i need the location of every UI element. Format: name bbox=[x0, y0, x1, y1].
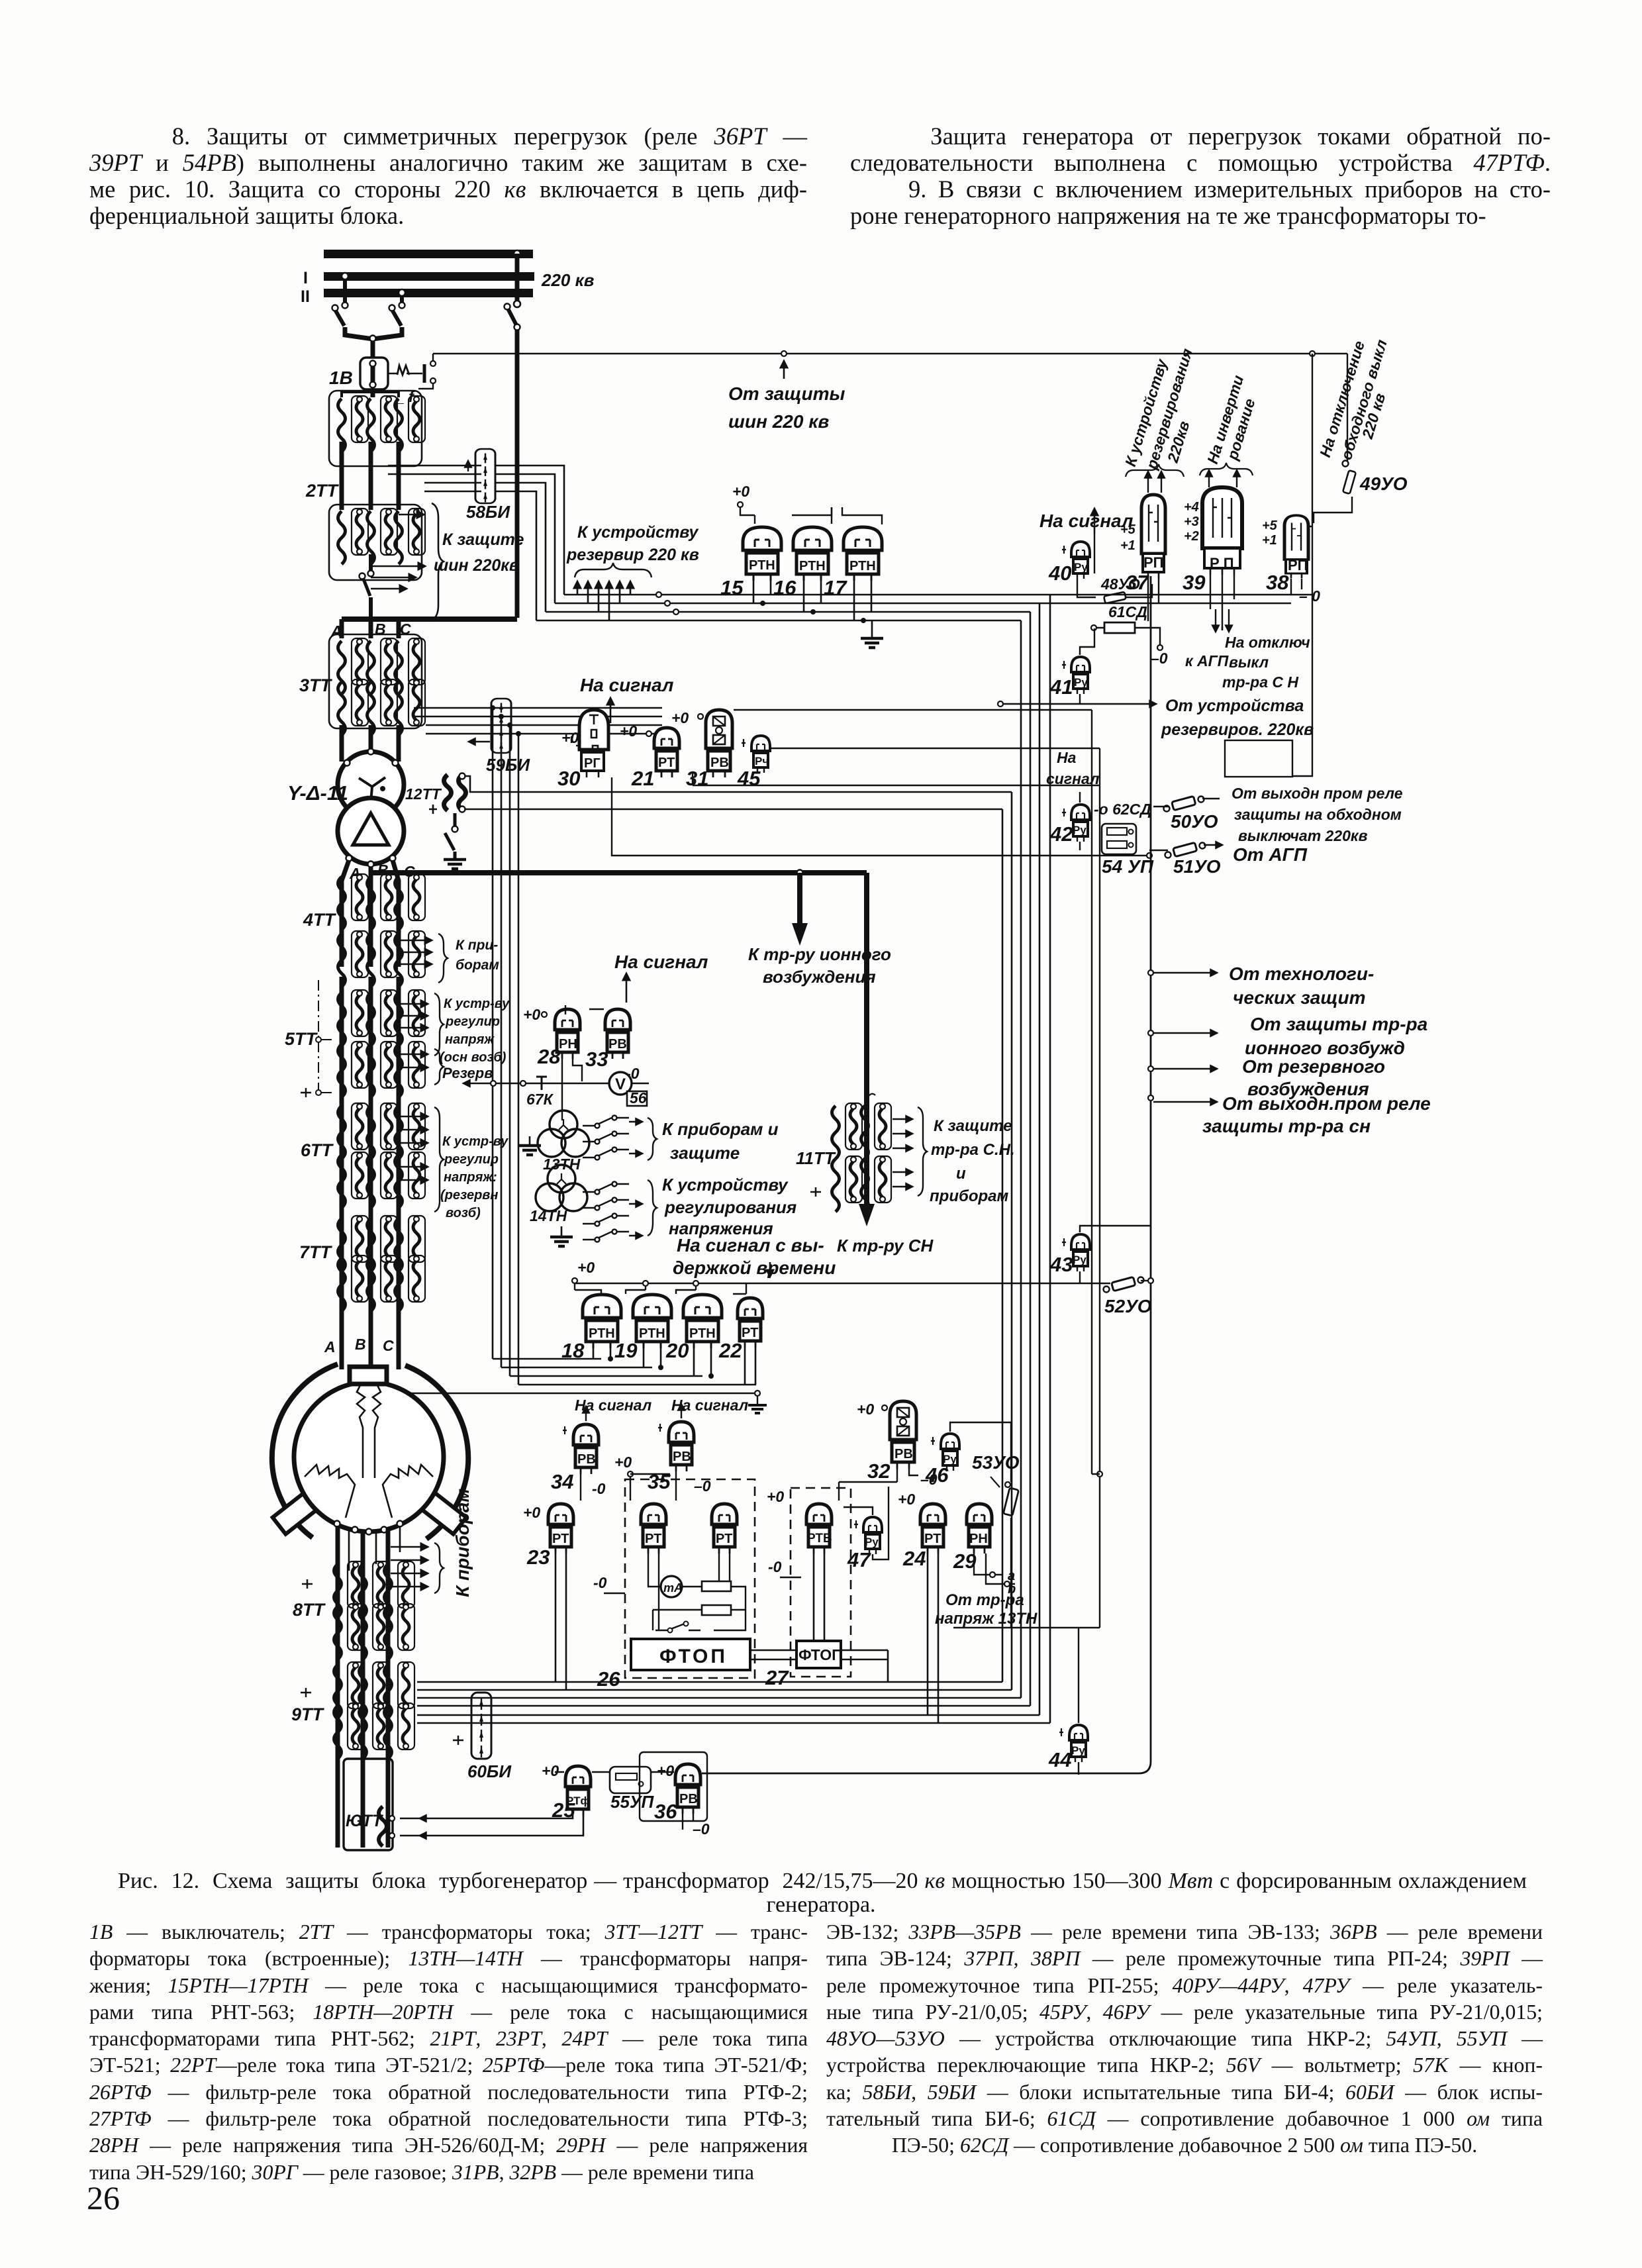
transformer D lower winding bbox=[338, 798, 404, 864]
wire: 28 leg down to 13TN bbox=[562, 1059, 582, 1120]
relay RN 29 bbox=[967, 1504, 992, 1553]
relay RV 34 bbox=[573, 1424, 599, 1474]
relay RN 28 bbox=[555, 1009, 580, 1059]
svg-text:34: 34 bbox=[551, 1470, 573, 1493]
svg-text:РВ: РВ bbox=[608, 1037, 627, 1052]
svg-text:В: В bbox=[355, 1336, 366, 1353]
svg-text:ФТОП: ФТОП bbox=[659, 1646, 728, 1667]
wires: 3TT down to transformer bbox=[342, 725, 399, 762]
disconnector 1 on bus II bbox=[342, 273, 348, 279]
svg-text:+1: +1 bbox=[1262, 533, 1277, 548]
brace + arrows up from RP39 bbox=[1200, 463, 1253, 475]
switch contacts bank to the right of 13TN/14TN bbox=[583, 1116, 629, 1242]
svg-text:защиты тр-ра сн: защиты тр-ра сн bbox=[1202, 1116, 1371, 1136]
svg-text:тА: тА bbox=[663, 1581, 683, 1595]
CT group 6TT row 1 bbox=[338, 1103, 369, 1159]
svg-text:50УО: 50УО bbox=[1171, 811, 1218, 832]
relay RP 37 bbox=[1141, 495, 1165, 579]
svg-text:V: V bbox=[615, 1075, 626, 1093]
svg-text:28: 28 bbox=[537, 1045, 561, 1068]
svg-text:шин 220кв: шин 220кв bbox=[434, 556, 519, 575]
svg-text:РТ: РТ bbox=[552, 1532, 569, 1546]
svg-text:24: 24 bbox=[902, 1547, 926, 1570]
relay RV 31 bbox=[706, 710, 732, 777]
svg-text:+5: +5 bbox=[1262, 518, 1278, 533]
svg-text:На сигнал: На сигнал bbox=[580, 675, 673, 695]
voltage transformer 13TN bbox=[538, 1110, 589, 1157]
signal line y1936 to 52UO bbox=[575, 1283, 1110, 1284]
svg-text:53УО: 53УО bbox=[972, 1452, 1020, 1473]
internal winding right bbox=[383, 1465, 433, 1518]
svg-text:РТ: РТ bbox=[645, 1532, 661, 1546]
relay RU 41 bbox=[1071, 657, 1090, 694]
relay RU 44 bbox=[1069, 1725, 1088, 1762]
svg-text:22: 22 bbox=[718, 1339, 742, 1362]
wires in box 26 bbox=[648, 1553, 746, 1630]
svg-text:РВ: РВ bbox=[577, 1452, 596, 1467]
svg-text:67К: 67К bbox=[526, 1091, 554, 1108]
svg-text:+2: +2 bbox=[1184, 529, 1199, 544]
wire: feeder drop from bar 1 bbox=[515, 254, 520, 304]
resistors in box 26 bbox=[702, 1581, 731, 1591]
svg-text:14ТН: 14ТН bbox=[530, 1207, 567, 1224]
thick tap line to SN / ion excitation transformers bbox=[371, 870, 867, 875]
svg-text:защите: защите bbox=[670, 1143, 740, 1163]
svg-text:19: 19 bbox=[614, 1339, 638, 1362]
relay RU 47 bbox=[863, 1517, 882, 1554]
CT group 7TT row 2 bbox=[338, 1256, 369, 1311]
svg-text:РГ: РГ bbox=[584, 756, 601, 771]
relay RTN 15 bbox=[743, 527, 781, 581]
empty contact box of 39 circuit bbox=[1225, 740, 1292, 777]
svg-text:39: 39 bbox=[1183, 571, 1206, 594]
relay RT (in box 26) bbox=[641, 1504, 666, 1553]
ground tap of H1 bbox=[871, 620, 873, 637]
svg-text:От тр-ра: От тр-ра bbox=[945, 1591, 1024, 1609]
svg-text:32: 32 bbox=[867, 1459, 890, 1483]
svg-text:5ТТ: 5ТТ bbox=[285, 1029, 318, 1049]
svg-text:+0: +0 bbox=[898, 1491, 915, 1508]
svg-text:напряж: напряж bbox=[445, 1032, 495, 1047]
relay RTN 20 bbox=[683, 1295, 722, 1348]
figure caption bbox=[118, 1869, 1527, 1894]
brace bbox=[438, 934, 448, 983]
svg-text:6ТТ: 6ТТ bbox=[301, 1140, 334, 1160]
wire y2455 bbox=[953, 748, 1100, 1628]
svg-text:Ру: Ру bbox=[865, 1536, 879, 1548]
breaker trip coil circuit bbox=[388, 373, 422, 374]
junction dots where 15-17 legs meet H1 bbox=[760, 601, 765, 606]
relay RTN 19 bbox=[633, 1295, 671, 1348]
svg-text:+0: +0 bbox=[577, 1259, 595, 1276]
svg-text:От защиты: От защиты bbox=[728, 383, 845, 404]
relay RV 33 bbox=[605, 1009, 630, 1059]
arrows from 5TT bbox=[399, 1003, 428, 1005]
svg-text:220 кв: 220 кв bbox=[541, 270, 595, 290]
relay RP 39 (big) bbox=[1202, 487, 1242, 575]
top left paragraph bbox=[89, 123, 807, 229]
svg-text:РТ: РТ bbox=[716, 1532, 732, 1546]
svg-text:11ТТ: 11ТТ bbox=[796, 1148, 836, 1168]
svg-text:9ТТ: 9ТТ bbox=[291, 1704, 325, 1724]
svg-text:К устройству: К устройству bbox=[662, 1175, 789, 1195]
polarity arrow at 58BI bbox=[467, 461, 469, 471]
transformer terminals bbox=[368, 749, 374, 755]
svg-text:регулир: регулир bbox=[445, 1014, 500, 1029]
svg-text:регулирования: регулирования bbox=[664, 1197, 797, 1217]
wires from relay row 30 to the right bbox=[693, 710, 1100, 785]
svg-text:30: 30 bbox=[557, 767, 580, 790]
dash-dot tie line of 5TT bbox=[318, 980, 319, 1093]
relay RU 45 bbox=[751, 736, 770, 773]
svg-text:резервир 220 кв: резервир 220 кв bbox=[566, 546, 699, 564]
svg-text:(резервн: (резервн bbox=[440, 1188, 498, 1203]
svg-text:ионного возбужд: ионного возбужд bbox=[1245, 1038, 1405, 1058]
svg-text:1В: 1В bbox=[329, 368, 353, 388]
svg-text:7ТТ: 7ТТ bbox=[299, 1242, 333, 1262]
fuse 51UO bbox=[1149, 850, 1168, 851]
legend right column bbox=[826, 1919, 1543, 2159]
svg-text:I: I bbox=[303, 269, 308, 287]
arrows K priboram (bottom) bbox=[391, 1546, 428, 1548]
svg-text:15: 15 bbox=[720, 576, 744, 599]
svg-text:21: 21 bbox=[631, 767, 654, 790]
legs of 15-17 into bundle bbox=[753, 577, 871, 620]
svg-text:-о 62СД: -о 62СД bbox=[1094, 801, 1151, 818]
svg-text:37: 37 bbox=[1126, 571, 1149, 594]
svg-text:РТН: РТН bbox=[639, 1326, 665, 1341]
svg-text:38: 38 bbox=[1266, 571, 1289, 594]
svg-text:От выходн пром реле: От выходн пром реле bbox=[1231, 785, 1403, 802]
FTOP small box bbox=[797, 1641, 841, 1668]
wire: FTOP interconnections bbox=[750, 1650, 888, 1682]
svg-text:На сигнал: На сигнал bbox=[614, 952, 708, 972]
brace 6TT bbox=[434, 1107, 444, 1212]
switch in box 26 bbox=[655, 1624, 700, 1630]
relay RV 35 bbox=[669, 1422, 694, 1471]
disconnector below 2TT bbox=[369, 554, 373, 571]
rotor bottom terminals bbox=[334, 1521, 340, 1527]
fuse 48UO bbox=[1104, 592, 1126, 603]
wire: joined feeders to breaker bbox=[345, 327, 402, 359]
brace 11TT bbox=[918, 1107, 927, 1196]
internal winding center bbox=[357, 1384, 381, 1478]
svg-text:+0: +0 bbox=[523, 1006, 540, 1023]
wire Ot AGP horizontal bbox=[612, 777, 1149, 856]
CT group 4TT bbox=[338, 874, 369, 930]
braces of TN circuits bbox=[648, 1118, 657, 1160]
wire: right feeder down bbox=[515, 330, 520, 618]
wires: 2TT secondaries to test block bbox=[388, 466, 481, 491]
svg-text:44: 44 bbox=[1048, 1748, 1071, 1771]
generator stator arc right bbox=[405, 1365, 468, 1539]
svg-text:42: 42 bbox=[1049, 822, 1073, 846]
bundle H3 from relays 18-22 bbox=[407, 1359, 757, 1393]
svg-text:резервиров. 220кв: резервиров. 220кв bbox=[1161, 720, 1314, 739]
svg-text:+0: +0 bbox=[732, 483, 749, 500]
test block 60BI bbox=[471, 1693, 491, 1759]
relay RTN 18 bbox=[583, 1295, 621, 1348]
legend left column bbox=[89, 1919, 808, 2186]
voltage transformer 14TN bbox=[536, 1165, 587, 1211]
svg-text:На сигнал: На сигнал bbox=[1039, 511, 1133, 531]
svg-text:РП: РП bbox=[1143, 554, 1164, 571]
stator pole right bbox=[421, 1492, 467, 1534]
CT group 9TT bbox=[334, 1662, 365, 1718]
svg-text:Рч: Рч bbox=[755, 755, 769, 767]
busbar bar 2 bbox=[324, 272, 534, 281]
svg-text:к АГП: к АГП bbox=[1185, 652, 1229, 669]
svg-text:27: 27 bbox=[765, 1666, 789, 1689]
fuse 50UO bbox=[1153, 806, 1169, 807]
svg-text:Р П: Р П bbox=[1210, 555, 1234, 571]
fuse 52UO bbox=[1104, 1277, 1144, 1292]
svg-text:31: 31 bbox=[686, 767, 708, 790]
svg-text:+0: +0 bbox=[523, 1504, 540, 1521]
svg-text:49УО: 49УО bbox=[1359, 473, 1408, 494]
svg-text:шин 220 кв: шин 220 кв bbox=[728, 411, 829, 432]
svg-text:-0: -0 bbox=[768, 1558, 782, 1575]
taps with arrows bbox=[1148, 970, 1153, 975]
svg-text:РТН: РТН bbox=[749, 558, 775, 573]
ground bbox=[444, 860, 466, 869]
svg-text:58БИ: 58БИ bbox=[466, 502, 510, 522]
svg-text:–0: –0 bbox=[1151, 650, 1168, 667]
terminal box bbox=[350, 1367, 387, 1384]
svg-text:25: 25 bbox=[552, 1799, 575, 1822]
svg-text:Ру: Ру bbox=[1073, 1254, 1087, 1266]
svg-text:+4: +4 bbox=[1184, 500, 1199, 515]
svg-text:4ТТ: 4ТТ bbox=[303, 910, 337, 930]
CT group 2TT row 1 bbox=[329, 391, 422, 466]
svg-text:Ру: Ру bbox=[1074, 676, 1088, 689]
wires 10TT to relay 25 bbox=[400, 1816, 583, 1836]
schematic drawn below bbox=[272, 250, 1431, 1850]
svg-text:2ТТ: 2ТТ bbox=[305, 481, 340, 501]
wires: 58BI to corner bundle bbox=[495, 466, 564, 620]
CT 10TT winding bbox=[379, 1806, 387, 1846]
brace K zashchite shin bbox=[432, 503, 444, 620]
CT group 6TT row 2 bbox=[338, 1152, 369, 1208]
svg-text:К приборам: К приборам bbox=[452, 1489, 473, 1597]
svg-text:На: На bbox=[1057, 749, 1077, 766]
CT row to instruments bbox=[338, 931, 369, 987]
svg-text:60БИ: 60БИ bbox=[467, 1761, 512, 1781]
FTOP big box bbox=[631, 1639, 750, 1670]
internal winding left bbox=[305, 1465, 355, 1518]
switching device 54UP bbox=[1102, 824, 1136, 854]
svg-text:защиты на обходном: защиты на обходном bbox=[1234, 806, 1402, 823]
svg-text:ческих защит: ческих защит bbox=[1233, 987, 1366, 1008]
relay RG 30 (gas relay) bbox=[579, 710, 608, 777]
svg-text:РН: РН bbox=[559, 1037, 577, 1052]
svg-text:41: 41 bbox=[1049, 675, 1073, 699]
svg-text:тр-ра С Н: тр-ра С Н bbox=[1222, 673, 1298, 691]
svg-text:17: 17 bbox=[824, 576, 847, 599]
CT group 2TT row 2 bbox=[329, 505, 422, 580]
relay RP 38 bbox=[1284, 515, 1308, 578]
svg-text:РВ: РВ bbox=[679, 1792, 698, 1806]
relay RU 43 bbox=[1071, 1234, 1090, 1271]
generator rotor circle bbox=[294, 1382, 444, 1532]
CT group 3TT bbox=[329, 634, 422, 728]
test block 59BI bbox=[491, 699, 511, 753]
svg-text:К защите: К защите bbox=[934, 1117, 1012, 1135]
svg-text:51УО: 51УО bbox=[1173, 856, 1221, 877]
svg-text:–0: –0 bbox=[693, 1820, 710, 1838]
svg-text:Ру: Ру bbox=[1071, 1744, 1085, 1757]
arrows K priboram bbox=[399, 940, 432, 942]
svg-text:возбуждения: возбуждения bbox=[763, 967, 876, 987]
legs 18-22 to bundle H3 bbox=[593, 1344, 755, 1385]
arrows up to reserve device bbox=[577, 581, 579, 595]
svg-text:напряж 13ТН: напряж 13ТН bbox=[935, 1610, 1038, 1628]
generator output leads down bbox=[338, 1526, 388, 1848]
wire: long signal line to the right (y 532) bbox=[433, 353, 1347, 355]
svg-text:РП: РП bbox=[1288, 557, 1308, 573]
busbar bar 3 bbox=[324, 289, 533, 297]
svg-text:ФТОП: ФТОП bbox=[798, 1646, 843, 1663]
svg-text:12ТТ: 12ТТ bbox=[405, 785, 442, 803]
svg-text:РТН: РТН bbox=[799, 559, 826, 573]
svg-text:8ТТ: 8ТТ bbox=[293, 1600, 326, 1620]
thick junction bus to feeder bbox=[342, 616, 517, 622]
svg-text:16: 16 bbox=[773, 576, 797, 599]
button 57K and voltmeter circuit bbox=[463, 1083, 610, 1084]
svg-text:К приборам и: К приборам и bbox=[662, 1119, 779, 1139]
relay RTN 17 bbox=[844, 527, 882, 581]
svg-text:держкой времени: держкой времени bbox=[673, 1257, 836, 1278]
generator stator arc left bbox=[272, 1364, 338, 1538]
svg-text:К при-: К при- bbox=[456, 938, 498, 953]
svg-text:47: 47 bbox=[847, 1548, 871, 1571]
svg-text:К устр-ву: К устр-ву bbox=[444, 997, 510, 1011]
svg-text:А: А bbox=[324, 1338, 336, 1356]
svg-text:23: 23 bbox=[526, 1546, 550, 1569]
svg-text:К устройству: К устройству bbox=[577, 523, 699, 542]
CT group 5TT row 1 bbox=[338, 990, 369, 1046]
svg-text:РТН: РТН bbox=[589, 1326, 615, 1341]
node on busbar 3 bbox=[514, 301, 520, 307]
svg-text:+0: +0 bbox=[857, 1401, 874, 1418]
svg-text:РТ: РТ bbox=[658, 756, 675, 770]
svg-text:РТ: РТ bbox=[924, 1532, 941, 1546]
svg-text:На сигнал: На сигнал bbox=[671, 1397, 748, 1414]
braces 5TT bbox=[434, 993, 444, 1056]
thick branch: to ion excitation transformer bbox=[797, 873, 802, 926]
svg-text:(осн возб): (осн возб) bbox=[440, 1050, 507, 1065]
relay RT 22 bbox=[738, 1298, 763, 1348]
relay RT 21 bbox=[654, 728, 679, 777]
svg-text:33: 33 bbox=[585, 1048, 608, 1071]
svg-text:РТН: РТН bbox=[849, 559, 876, 573]
svg-text:43: 43 bbox=[1049, 1253, 1073, 1276]
svg-text:борам: борам bbox=[456, 958, 499, 973]
svg-text:От АГП: От АГП bbox=[1233, 844, 1308, 865]
switching device 55UP bbox=[610, 1767, 651, 1793]
svg-text:+0: +0 bbox=[561, 729, 579, 746]
relay RU 46 bbox=[941, 1434, 959, 1471]
svg-text:возб): возб) bbox=[446, 1206, 481, 1220]
svg-text:К тр-ру ионного: К тр-ру ионного bbox=[748, 944, 891, 964]
svg-text:РН: РН bbox=[969, 1532, 988, 1546]
svg-text:40: 40 bbox=[1048, 562, 1071, 585]
wires below transformer bbox=[342, 860, 399, 967]
svg-text:приборам: приборам bbox=[930, 1187, 1009, 1205]
vertical drop bundle at x744..783 bbox=[493, 708, 518, 1385]
svg-text:18: 18 bbox=[561, 1339, 585, 1362]
arrows to bus protection (K zashchite shin) bbox=[399, 514, 424, 516]
svg-text:регулир: регулир bbox=[444, 1152, 499, 1167]
wire from y532 node down to RP38 bbox=[1292, 354, 1312, 776]
svg-text:РТН: РТН bbox=[689, 1326, 716, 1341]
na signal arrow of 28/33 bbox=[626, 973, 628, 1003]
transformer Y/D upper winding bbox=[338, 752, 404, 818]
svg-text:+0: +0 bbox=[657, 1762, 674, 1779]
svg-text:Резерв: Резерв bbox=[442, 1065, 493, 1081]
dashed box 27 bbox=[791, 1488, 851, 1677]
svg-text:От устройства: От устройства bbox=[1165, 697, 1304, 715]
voltmeter V 56 bbox=[609, 1072, 632, 1095]
svg-text:На сигнал с вы-: На сигнал с вы- bbox=[677, 1235, 824, 1256]
arrows from 6TT bbox=[399, 1116, 428, 1118]
svg-text:От защиты тр-ра: От защиты тр-ра bbox=[1250, 1014, 1427, 1034]
svg-text:К защите: К защите bbox=[442, 530, 524, 549]
right vertical trunk bbox=[702, 576, 1151, 1773]
svg-text:II: II bbox=[301, 287, 310, 306]
svg-text:+5: +5 bbox=[1120, 522, 1136, 537]
svg-text:26: 26 bbox=[597, 1667, 620, 1691]
svg-text:56: 56 bbox=[630, 1089, 647, 1107]
svg-text:К тр-ру СН: К тр-ру СН bbox=[837, 1236, 934, 1256]
svg-text:45: 45 bbox=[737, 767, 761, 790]
brace K priboram bbox=[434, 1543, 444, 1593]
top right paragraph bbox=[850, 123, 1551, 229]
relay RV 32 bbox=[890, 1401, 916, 1469]
svg-text:От технологи-: От технологи- bbox=[1229, 963, 1374, 984]
relay RU 40 bbox=[1071, 542, 1090, 579]
svg-text:+0: +0 bbox=[620, 722, 637, 740]
svg-text:и: и bbox=[956, 1165, 966, 1183]
svg-text:РВ: РВ bbox=[673, 1450, 691, 1464]
svg-text:+0: +0 bbox=[671, 709, 689, 726]
node on busbar 1 bbox=[514, 250, 520, 257]
CT 10TT box bbox=[344, 1759, 393, 1850]
svg-text:Ру: Ру bbox=[1073, 824, 1087, 836]
svg-text:+0: +0 bbox=[767, 1488, 784, 1505]
svg-text:Y-Δ-11: Y-Δ-11 bbox=[287, 781, 348, 805]
test block 58BI bbox=[475, 449, 495, 503]
svg-text:+1: +1 bbox=[1120, 538, 1135, 553]
CT group 8TT bbox=[334, 1561, 365, 1617]
wires a/b from 29 bbox=[974, 1553, 1015, 1584]
ground at 13TN bbox=[529, 1136, 531, 1144]
wire: breaker to CT group 2TT bbox=[371, 389, 375, 397]
svg-text:36: 36 bbox=[654, 1800, 677, 1823]
earthing switch under 12TT bbox=[454, 813, 457, 826]
bottom bundle H2 to the left bbox=[417, 1682, 1050, 1723]
svg-text:РТ: РТ bbox=[742, 1326, 758, 1340]
svg-text:+0: +0 bbox=[614, 1454, 632, 1471]
svg-text:– 0: – 0 bbox=[1299, 587, 1320, 605]
svg-text:3ТТ: 3ТТ bbox=[299, 675, 333, 695]
transformer star mark bbox=[359, 777, 385, 803]
relay RT 24 bbox=[920, 1504, 945, 1553]
svg-text:61СД: 61СД bbox=[1108, 603, 1147, 620]
svg-text:52УО: 52УО bbox=[1104, 1296, 1152, 1316]
svg-text:От резервного: От резервного bbox=[1242, 1056, 1385, 1077]
svg-text:выкл: выкл bbox=[1229, 654, 1269, 671]
